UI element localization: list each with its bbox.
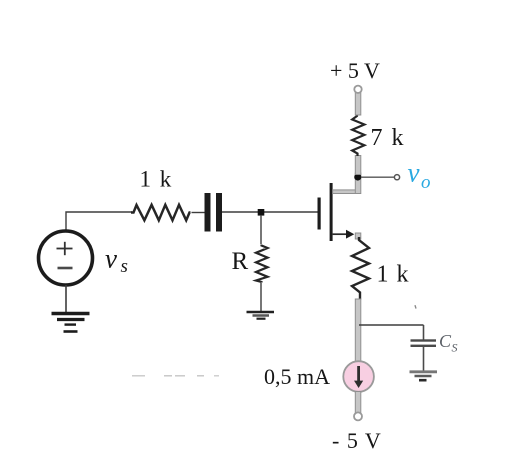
transistor Q1 source lead with arrow [333, 230, 361, 239]
wire: R to ground [260, 283, 262, 311]
transistor Q1 channel bar [330, 183, 333, 241]
stray tick mark above Cs [415, 305, 416, 308]
value label 0,5 mA [264, 364, 330, 389]
svg-text:R: R [232, 248, 249, 275]
terminal +5V (open circle) [354, 86, 361, 93]
faint erased dashes left of current source [132, 375, 219, 377]
svg-text:1 k: 1 k [140, 167, 173, 192]
svg-text:- 5 V: - 5 V [332, 428, 382, 453]
svg-text:1 k: 1 k [377, 262, 410, 288]
wire: Cs top lead [423, 325, 425, 340]
svg-text:0,5 mA: 0,5 mA [264, 364, 330, 389]
wire: vs top stub and horizontal rail to 1k resistor [66, 212, 132, 231]
value label 1 k (input resistor) [140, 167, 173, 192]
label Cs [439, 331, 458, 355]
transistor Q1 gate bar [318, 198, 321, 230]
node B (drain node, round junction dot) [354, 173, 361, 180]
svg-text:v: v [408, 158, 420, 188]
wire: Cs bottom lead [423, 347, 425, 371]
label +5 V supply [330, 58, 380, 83]
ground (below VS) [52, 314, 90, 332]
terminal -5V (open circle) [354, 412, 362, 420]
wire: VS bottom to ground [65, 285, 67, 312]
resistor R3 1k (source, vertical zigzag) [352, 237, 369, 300]
transistor Q1 drain lead (thick gray L) [333, 173, 361, 194]
resistor R2 7k (drain, vertical zigzag) [352, 115, 364, 157]
current source I1 (0.5 mA, pink circle with down arrow) [343, 361, 374, 392]
wire: thick gray from drain node up to 7k [355, 156, 361, 175]
resistor R (gate bias, vertical zigzag) [256, 245, 268, 283]
capacitor Cs (bypass, horizontal plates) [411, 339, 437, 347]
wire: capacitor to gate with node [222, 211, 318, 213]
terminal vo (open circle) [394, 175, 399, 180]
capacitor C1 (coupling, two thick vertical plates) [205, 193, 223, 232]
ground (below R) [247, 312, 275, 319]
resistor R1 1k (series input, horizontal zigzag) [131, 205, 191, 221]
wire: node down to resistor R [260, 215, 262, 244]
wire: resistor to coupling capacitor [192, 212, 205, 214]
svg-text:s: s [121, 256, 128, 277]
svg-text:7 k: 7 k [371, 125, 406, 151]
wire: thick gray from 7k up to +5V terminal [355, 93, 361, 116]
label R [232, 248, 249, 275]
value label 1 k (source resistor) [377, 262, 410, 288]
wire: current source to -5V terminal [355, 392, 361, 413]
ground (below Cs) [410, 372, 438, 380]
voltage source VS (circle with plus minus) [39, 231, 93, 285]
value label 7 k [371, 125, 406, 151]
wire: thick gray from 1k down to current source [355, 299, 361, 362]
svg-text:C: C [439, 331, 452, 351]
label vs [105, 244, 128, 278]
svg-text:S: S [452, 341, 458, 355]
label -5 V supply [332, 428, 382, 453]
wire: source node branch to Cs [359, 324, 424, 326]
node A (gate node, square junction dot) [258, 209, 265, 216]
svg-text:o: o [421, 172, 431, 193]
svg-text:+ 5 V: + 5 V [330, 58, 380, 83]
wire: drain node to vo terminal [361, 176, 394, 178]
svg-text:v: v [105, 244, 117, 274]
label vo (cyan output) [408, 158, 431, 194]
